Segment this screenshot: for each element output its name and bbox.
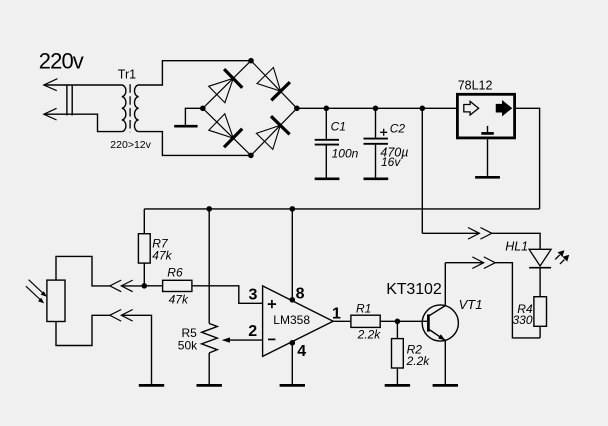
ground C2 xyxy=(364,177,389,180)
resistor R7 xyxy=(138,234,150,263)
svg-text:Tr1: Tr1 xyxy=(118,68,136,82)
capacitor C1 plate bottom xyxy=(315,144,339,146)
op-amp plus input symbol xyxy=(268,300,276,308)
node base junction xyxy=(395,319,401,325)
mains input arrow top xyxy=(44,79,58,91)
svg-text:2: 2 xyxy=(248,323,257,340)
light arrow 1 xyxy=(29,280,44,294)
wire mains bottom xyxy=(44,114,122,131)
svg-text:VT1: VT1 xyxy=(459,297,483,312)
regulator U1 78L12 box xyxy=(457,94,514,138)
ground regulator xyxy=(475,176,500,179)
emitter arrowhead xyxy=(438,334,445,340)
diode D2 top-right triangle xyxy=(257,68,281,92)
node bridge left xyxy=(200,106,206,112)
capacitor C2 bottom lead xyxy=(375,145,377,178)
wire node to R6 xyxy=(144,285,162,287)
capacitor C1 plate top xyxy=(315,139,339,141)
svg-text:3: 3 xyxy=(249,287,258,304)
wire R5 wiper to op-amp pin2 xyxy=(230,339,263,341)
wire photoresistor top lead xyxy=(56,256,110,286)
LED emission arrow 2 xyxy=(560,260,564,264)
transformer Tr1 core xyxy=(129,84,131,132)
node pin 8 xyxy=(290,297,296,303)
connector top chevron 1 xyxy=(110,280,121,292)
svg-text:100n: 100n xyxy=(332,146,359,160)
connector upper chevron 1 xyxy=(468,228,479,240)
regulator input arrow (open) xyxy=(464,101,479,115)
diode D2 top-right cathode bar xyxy=(271,82,290,100)
op-amp minus input symbol xyxy=(268,338,275,340)
node rail R5 xyxy=(206,206,212,212)
wire emitter to ground xyxy=(444,340,446,384)
transistor VT1 collector line xyxy=(428,306,445,317)
regulator inner ground pin symbol xyxy=(487,126,489,132)
capacitor C1 top lead xyxy=(325,108,327,139)
resistor R4 xyxy=(534,297,547,327)
ground bridge xyxy=(174,125,197,128)
svg-text:R1: R1 xyxy=(356,302,371,316)
wire regulator output xyxy=(516,108,540,209)
transformer Tr1 secondary winding xyxy=(134,85,138,132)
wire connector to R4 bottom xyxy=(495,263,540,338)
wire pin 4 to ground xyxy=(291,342,293,384)
svg-text:2.2k: 2.2k xyxy=(406,354,431,368)
node R7 R6 junction xyxy=(142,283,148,289)
wire connector bottom to ground xyxy=(121,315,151,384)
node bridge bottom xyxy=(248,153,254,159)
svg-text:1: 1 xyxy=(332,306,341,323)
C2 polarity plus sign xyxy=(380,129,387,136)
diode D1 top-left triangle xyxy=(209,78,234,102)
transistor VT1 base bar xyxy=(427,314,430,331)
bridge edge bottom-right xyxy=(251,108,297,155)
svg-text:KT3102: KT3102 xyxy=(386,281,442,298)
connector bottom chevron 1 xyxy=(110,310,121,322)
connector lower chevron 2 xyxy=(484,257,495,269)
regulator output arrow (filled) xyxy=(496,101,511,115)
svg-text:220>12v: 220>12v xyxy=(110,139,151,151)
wire connector top to node xyxy=(121,285,144,287)
svg-text:50k: 50k xyxy=(178,339,198,353)
capacitor C1 bottom lead xyxy=(325,146,327,178)
light arrow 2 xyxy=(26,286,41,300)
diode D3 bottom-left cathode bar xyxy=(224,129,242,148)
wire LED cathode to R4 xyxy=(539,268,541,297)
connector top chevron 2 xyxy=(121,280,132,292)
op-amp U1 LM358 triangle xyxy=(263,286,334,357)
wire R5 bottom to ground xyxy=(208,353,210,384)
transistor VT1 body circle xyxy=(422,305,458,341)
connector plug bar 1 xyxy=(66,85,68,116)
wire collector to connector xyxy=(445,262,483,264)
LED emission arrow 1 xyxy=(555,255,559,259)
ground emitter xyxy=(433,384,458,387)
node pin 4 xyxy=(290,340,296,346)
wire regulated 12V rail xyxy=(144,208,539,210)
diode D4 bottom-right triangle xyxy=(256,125,280,149)
wire R1 to base node xyxy=(380,320,397,322)
bridge edge bottom-left xyxy=(203,108,251,155)
capacitor C2 plate bottom xyxy=(364,143,388,145)
connector plug bar 2 xyxy=(71,85,73,116)
LED HL1 cathode bar xyxy=(529,267,551,269)
diode D1 top-left cathode bar xyxy=(224,69,242,88)
svg-text:47k: 47k xyxy=(169,292,189,306)
ground sensor return xyxy=(139,384,164,387)
svg-text:47k: 47k xyxy=(152,248,172,262)
diode D4 bottom-right cathode bar xyxy=(271,116,290,134)
node bridge top xyxy=(248,58,254,64)
svg-text:2.2k: 2.2k xyxy=(357,328,382,342)
svg-text:R6: R6 xyxy=(167,266,183,280)
wire mains top xyxy=(44,84,122,86)
svg-text:16v: 16v xyxy=(381,155,401,169)
wire R4 bottom lead xyxy=(539,326,541,338)
bridge edge top-right xyxy=(251,61,297,109)
wire LED feed xyxy=(422,232,479,234)
wire rail drop to R7 xyxy=(143,209,145,234)
connector lower chevron 1 xyxy=(472,257,483,269)
svg-text:8: 8 xyxy=(296,286,305,303)
ground R2 xyxy=(385,384,410,387)
wire base xyxy=(397,320,428,322)
wire pin 8 supply xyxy=(291,209,293,301)
diode D3 bottom-left triangle xyxy=(209,114,233,138)
node rail C1 xyxy=(324,106,330,112)
bridge edge top-left xyxy=(203,61,251,109)
wire branch from top rail down to LED feed xyxy=(421,108,423,233)
transistor VT1 emitter line xyxy=(428,329,445,340)
resistor R1 xyxy=(351,315,380,327)
mains input arrow bottom xyxy=(44,108,57,120)
wire node to R2 xyxy=(396,321,398,338)
ground pin 4 xyxy=(280,384,305,387)
svg-text:4: 4 xyxy=(297,343,306,360)
wire photoresistor bottom lead xyxy=(56,315,110,345)
wire R6 to op-amp pin3 xyxy=(192,286,263,304)
svg-text:HL1: HL1 xyxy=(505,239,528,253)
wire R7 bottom lead xyxy=(143,263,145,286)
wire R2 to ground xyxy=(396,368,398,384)
wire top supply rail xyxy=(297,107,456,109)
capacitor C2 top lead xyxy=(375,108,377,137)
wire bridge left node to ground xyxy=(185,108,202,125)
node rail pin8 xyxy=(290,206,296,212)
R5 wiper arrowhead xyxy=(222,337,230,342)
wire collector up xyxy=(444,263,446,306)
photoresistor body xyxy=(47,280,65,321)
svg-text:78L12: 78L12 xyxy=(458,79,493,93)
svg-text:C2: C2 xyxy=(390,122,406,136)
capacitor C2 plate top xyxy=(364,138,388,140)
ground R5 xyxy=(197,384,222,387)
node rail branch xyxy=(420,106,426,112)
connector bottom chevron 2 xyxy=(121,310,132,322)
node bridge right xyxy=(294,106,300,112)
wire regulator ground lead xyxy=(487,139,489,176)
wire secondary bottom to bridge xyxy=(139,132,251,156)
wire connector to LED anode xyxy=(492,233,540,249)
wire secondary top to bridge xyxy=(139,61,251,85)
wire rail to R5 xyxy=(208,209,210,324)
connector upper chevron 2 xyxy=(480,228,491,240)
node rail C2 xyxy=(373,106,379,112)
LED HL1 triangle xyxy=(529,249,551,266)
svg-text:LM358: LM358 xyxy=(273,313,310,327)
svg-text:330: 330 xyxy=(513,313,533,327)
transformer Tr1 primary winding xyxy=(122,85,126,132)
wire op-amp output xyxy=(333,320,351,322)
potentiometer R5 zigzag xyxy=(202,324,218,353)
resistor R6 xyxy=(163,280,192,291)
svg-text:220v: 220v xyxy=(39,49,84,74)
svg-text:C1: C1 xyxy=(331,119,346,133)
ground C1 xyxy=(315,177,340,180)
resistor R2 xyxy=(392,339,404,368)
